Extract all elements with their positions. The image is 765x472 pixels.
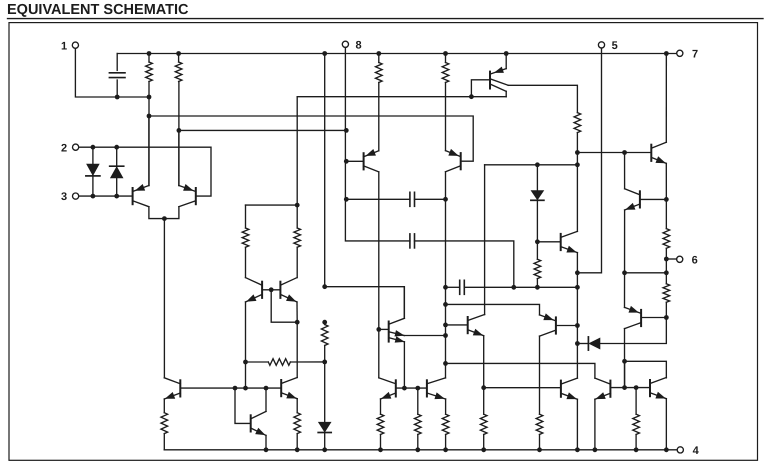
junction QM1-e-bot xyxy=(243,386,248,391)
junction QC-coll xyxy=(622,359,627,364)
transistor QT (NPN tail) xyxy=(164,378,180,399)
junction rail-D5 xyxy=(322,447,327,452)
junction R20-top xyxy=(634,385,639,390)
junction rail-R1 xyxy=(147,51,152,56)
pin 4 (ground) xyxy=(677,445,699,457)
transistor QH (NPN) xyxy=(468,315,485,336)
wire QC base stub xyxy=(642,317,667,319)
wire QA collector to rail xyxy=(665,54,667,143)
junction y116-left xyxy=(147,114,152,119)
wire R16 drop xyxy=(417,388,419,414)
junction rail-R14 xyxy=(295,447,300,452)
wire pin6 node wire xyxy=(665,248,667,272)
diode D5 xyxy=(319,422,331,432)
junction QM2-e xyxy=(295,320,300,325)
resistor R1 xyxy=(146,62,153,82)
junction C2-drop xyxy=(511,285,516,290)
resistor R8 xyxy=(321,325,328,346)
transistor QJ (NPN) xyxy=(650,378,666,399)
junction y363-left xyxy=(443,361,448,366)
junction QH-e-bot xyxy=(481,385,486,390)
wire Q2 collector down xyxy=(164,207,179,219)
wire pin2 line xyxy=(79,147,211,196)
transistor QC (PNP) xyxy=(625,307,642,329)
wire Q1 collector down xyxy=(149,207,165,219)
diode D1 xyxy=(92,147,94,196)
junction QX-e1 xyxy=(443,333,448,338)
wire R8 to node xyxy=(324,346,326,362)
junction R8-bot xyxy=(322,360,327,365)
wire R2 column xyxy=(178,54,180,63)
wire R4 column xyxy=(445,54,447,63)
wire QM1 emitter down xyxy=(245,302,247,388)
wire pin1 lead xyxy=(75,48,149,97)
junction QX-base xyxy=(376,327,381,332)
junction D1-bot xyxy=(91,194,96,199)
junction rail-QI1 xyxy=(575,447,580,452)
svg-text:1: 1 xyxy=(61,40,67,52)
wire D5 top xyxy=(324,362,326,422)
wire pin6 stub xyxy=(666,258,676,260)
junction rail-R2 xyxy=(176,51,181,56)
wire Q4 collector column xyxy=(445,172,447,378)
wire QA emitter down xyxy=(665,163,667,199)
diode D4 xyxy=(588,337,600,350)
transistor Q4 (PNP) xyxy=(446,150,461,172)
junction rail-QF xyxy=(264,447,269,452)
wire QD base stub xyxy=(557,325,578,327)
wire R14 to rail xyxy=(296,434,298,450)
junction QX-e2-bot xyxy=(402,386,407,391)
wire QH base stub xyxy=(446,324,467,326)
wire QF base drop xyxy=(235,388,250,423)
junction rail-R16 xyxy=(415,447,420,452)
resistor R4 xyxy=(442,63,449,83)
wire R7 right lead xyxy=(290,361,324,363)
transistor Q5 (dual-collector PNP) xyxy=(490,67,508,91)
wire R17 to rail xyxy=(445,435,447,450)
transistor Q1 (PNP, non-inverting input) xyxy=(133,185,149,207)
resistor R11 xyxy=(663,229,670,249)
junction rail-R4 xyxy=(443,51,448,56)
transistor QG1 (NPN) xyxy=(379,378,396,399)
junction R2-y130 xyxy=(177,128,182,133)
wire QH emitter down xyxy=(483,336,485,388)
transistor QA (NPN) xyxy=(651,142,666,163)
wire line y287 mid xyxy=(325,287,405,319)
wire line y130 xyxy=(179,129,346,131)
wire QD collector down xyxy=(539,336,541,414)
diode D3 xyxy=(531,191,543,200)
junction D3-top xyxy=(535,162,540,167)
junction rail-QA xyxy=(664,51,669,56)
wire D5 bottom xyxy=(324,433,326,450)
wire R20 to rail xyxy=(635,435,637,450)
wire R6 to M2 xyxy=(296,247,298,277)
wire line y165 xyxy=(485,164,578,166)
junction rail-pin4 xyxy=(664,447,669,452)
junction rail-R18 xyxy=(481,447,486,452)
wire QE collector up xyxy=(576,165,578,232)
wire mirror base drop xyxy=(271,290,297,322)
transistor QG2 (NPN) xyxy=(427,378,446,399)
junction C3-left xyxy=(443,285,448,290)
wire QC emitter up xyxy=(624,273,626,308)
wire C2 to drop xyxy=(415,241,514,287)
resistor R10 xyxy=(534,259,541,278)
resistor R6 xyxy=(294,228,301,247)
junction D4-left xyxy=(575,341,580,346)
wire bottom rail xyxy=(164,449,677,451)
transistor QE (NPN) xyxy=(561,231,578,252)
wire D4 right lead xyxy=(600,318,666,344)
wire QE base xyxy=(537,241,560,243)
resistor R16 xyxy=(415,414,422,434)
wire R3 to Q3 emitter xyxy=(378,83,380,151)
capacitor C3 xyxy=(460,280,465,294)
resistor R5 xyxy=(242,228,249,247)
junction R16-top xyxy=(415,386,420,391)
junction tail-top xyxy=(162,216,167,221)
wire R5 to M1 xyxy=(245,247,247,277)
svg-text:7: 7 xyxy=(692,48,698,60)
transistor Q3 (PNP) xyxy=(364,150,379,172)
junction y272-mid xyxy=(622,270,627,275)
pin 3 (non-inverting input) xyxy=(61,191,79,203)
junction D2-top xyxy=(114,145,119,150)
wire line y304 xyxy=(446,304,540,315)
transistor QB (NPN) xyxy=(625,189,640,210)
transistor QI1 (NPN) xyxy=(561,378,578,399)
wire QI2 base line xyxy=(611,387,649,389)
junction mirror-top xyxy=(295,203,300,208)
junction rail-R3 xyxy=(376,51,381,56)
capacitor C4 xyxy=(410,192,415,206)
junction QI2-base xyxy=(622,385,627,390)
junction y199-right xyxy=(443,197,448,202)
wire line y361 xyxy=(625,361,667,378)
junction rail-QI2 xyxy=(593,447,598,452)
transistor QX (dual-emitter NPN) xyxy=(389,318,405,342)
junction QH-base xyxy=(443,323,448,328)
junction rail-R20 xyxy=(634,447,639,452)
wire QX emitter1 xyxy=(404,335,445,337)
wire mirror top xyxy=(246,204,298,206)
junction R8-top xyxy=(322,320,327,325)
wire QB collector up xyxy=(624,153,626,189)
wire line y272 xyxy=(625,272,667,274)
pin 2 (inverting input) xyxy=(61,142,79,154)
junction Q3-base xyxy=(344,159,349,164)
wire QE emitter down xyxy=(576,253,578,379)
wire R18 drop xyxy=(483,388,485,415)
wire R4 to Q4 emitter xyxy=(445,83,447,151)
wire QT emitter down xyxy=(163,399,165,413)
wire QX collector up xyxy=(403,287,405,319)
junction D1-top xyxy=(91,145,96,150)
wire QC collector down xyxy=(624,329,626,388)
transistor QK (NPN) xyxy=(281,378,297,399)
junction R7-left xyxy=(243,360,248,365)
title underline xyxy=(8,18,764,20)
wire line y199 left xyxy=(346,198,410,200)
wire QM2 emitter down xyxy=(296,302,298,322)
wire QX base stub xyxy=(379,328,388,330)
transistor Q2 (PNP, inverting input) xyxy=(179,185,196,207)
wire Q5 emitter to rail xyxy=(505,54,507,69)
wire R18 to rail xyxy=(483,435,485,450)
pin 7 (bypass) xyxy=(677,48,698,60)
wire pin3 line xyxy=(79,195,132,197)
junction rail-R17 xyxy=(443,447,448,452)
junction y152-left xyxy=(575,150,580,155)
svg-text:2: 2 xyxy=(61,142,67,154)
resistor R13 xyxy=(161,413,168,434)
wire QG bases xyxy=(397,387,427,389)
svg-text:EQUIVALENT SCHEMATIC: EQUIVALENT SCHEMATIC xyxy=(7,2,189,18)
wire Q2 emitter up xyxy=(178,130,180,185)
wire tail line xyxy=(163,219,165,378)
resistor R18 xyxy=(480,414,487,434)
resistor R15 xyxy=(377,414,384,434)
junction pin1-R1 xyxy=(147,95,152,100)
pin 8 (gain2) xyxy=(342,39,361,51)
wire QK collector up xyxy=(296,322,298,377)
wire D4 left lead xyxy=(577,343,588,345)
wire C1 bottom lead xyxy=(116,80,118,97)
transistor QD (PNP) xyxy=(540,314,556,336)
junction R10-bot xyxy=(535,285,540,290)
transistor QM2 (NPN mirror) xyxy=(280,278,297,302)
transistor QI2 (NPN) xyxy=(595,378,611,399)
wire feedback line y116 xyxy=(149,116,473,161)
resistor R2 xyxy=(175,62,182,82)
svg-text:3: 3 xyxy=(61,191,67,203)
junction QC-base xyxy=(664,315,669,320)
capacitor C1 xyxy=(109,73,125,78)
wire R13 to rail xyxy=(163,434,165,450)
wire R15 to rail xyxy=(380,435,382,450)
wire R11 top lead xyxy=(665,199,667,228)
wire mirror column x297 xyxy=(296,97,298,228)
wire base line y388 left xyxy=(181,387,281,389)
wire line y287 left xyxy=(446,286,460,288)
wire Q1 emitter up xyxy=(148,116,150,186)
transistor QM1 (NPN mirror) xyxy=(246,278,263,302)
pin 1 (gain1) xyxy=(61,40,79,52)
junction y165-right xyxy=(575,162,580,167)
wire top rail xyxy=(117,53,677,55)
wire R12 top lead xyxy=(665,273,667,284)
wire QF collector up xyxy=(265,388,267,411)
junction rail-Q5 xyxy=(504,51,509,56)
junction rail-x324 xyxy=(322,51,327,56)
junction Q5-base xyxy=(469,94,474,99)
junction y199-left xyxy=(344,197,349,202)
junction rail-R19 xyxy=(537,447,542,452)
wire R3 column xyxy=(378,54,380,63)
resistor R3 xyxy=(376,63,383,83)
wire QF emitter down xyxy=(265,435,267,449)
wire QJ emitter down xyxy=(665,399,667,450)
diode D2 xyxy=(116,147,118,196)
junction D2-bot xyxy=(114,194,119,199)
wire R1 to Q1 emitter xyxy=(148,82,150,186)
junction QF-base xyxy=(233,386,238,391)
wire QI1 emitter down xyxy=(576,399,578,450)
pin 5 (output) xyxy=(598,40,617,52)
wire R8 top lead xyxy=(324,322,326,324)
wire R16 to rail xyxy=(417,435,419,450)
wire x485 drop xyxy=(484,165,486,315)
junction QD-base xyxy=(575,323,580,328)
junction rail-R15 xyxy=(378,447,383,452)
wire R7 left lead xyxy=(246,361,269,363)
wire R9 to node xyxy=(576,133,578,166)
svg-text:8: 8 xyxy=(356,39,362,51)
wire QG1 emitter down xyxy=(380,399,382,414)
wire line y363 xyxy=(446,363,595,378)
junction QB-base xyxy=(664,197,669,202)
resistor R19 xyxy=(536,414,543,434)
junction pin6 xyxy=(664,257,669,262)
wire C1 top lead xyxy=(116,54,118,71)
wire QK emitter down xyxy=(296,399,298,413)
resistor R9 xyxy=(574,113,581,133)
junction y272-left xyxy=(575,270,580,275)
wire R19 to rail xyxy=(539,435,541,450)
wire x324 column xyxy=(324,54,326,287)
junction y152-mid xyxy=(622,150,627,155)
wire Q5 collector1 to R9 xyxy=(508,85,577,112)
wire Q3 collector column xyxy=(378,172,380,378)
resistor R17 xyxy=(442,414,449,434)
svg-text:5: 5 xyxy=(612,40,618,52)
svg-text:6: 6 xyxy=(692,254,698,266)
wire R10 to y287 xyxy=(536,279,538,288)
junction QF-coll xyxy=(264,386,269,391)
junction y304-left xyxy=(443,302,448,307)
capacitor C2 xyxy=(410,234,415,248)
wire base line y388 right xyxy=(484,387,561,389)
wire line y287 right xyxy=(464,286,577,288)
wire Q5 collector2 to base node xyxy=(505,91,507,96)
wire pin8 column xyxy=(345,47,410,241)
wire R20 drop xyxy=(635,388,637,415)
junction y287-right xyxy=(575,285,580,290)
wire QB emitter down xyxy=(624,210,626,273)
wire Q5 base loop xyxy=(471,80,489,97)
junction y272-right xyxy=(664,270,669,275)
junction C1-bot xyxy=(115,95,120,100)
transistor QF (NPN) xyxy=(251,411,266,435)
wire D3 bottom xyxy=(536,200,538,259)
wire pin5 column xyxy=(577,48,601,273)
wire Q3 base stub xyxy=(346,160,362,162)
wire R5 lead xyxy=(245,205,247,228)
wire D3 top xyxy=(536,165,538,191)
wire QG2 emitter down xyxy=(445,399,447,414)
wire QI2 emitter down xyxy=(594,399,596,450)
resistor R7 xyxy=(268,359,290,366)
wire mirror feed y97 xyxy=(297,96,506,98)
junction mirror-bases xyxy=(269,287,274,292)
wire QB base stub xyxy=(641,198,667,200)
resistor R12 xyxy=(663,284,670,303)
wire R2 to Q2 emitter xyxy=(178,82,180,186)
wire QC collector drop xyxy=(624,361,626,387)
junction y130-right xyxy=(344,128,349,133)
resistor R20 xyxy=(633,414,640,434)
resistor R14 xyxy=(294,413,301,434)
wire line y152 xyxy=(577,152,650,154)
svg-text:4: 4 xyxy=(693,445,700,457)
junction y287-left xyxy=(322,284,327,289)
junction D3-bot xyxy=(535,239,540,244)
wire mirror bases xyxy=(263,289,281,291)
wire R1 column xyxy=(148,54,150,63)
wire QX emitter2 down xyxy=(403,342,405,388)
wire R12 to QC base xyxy=(665,302,667,317)
pin 6 (feedback) xyxy=(677,254,698,266)
wire line y199 right xyxy=(415,198,446,200)
